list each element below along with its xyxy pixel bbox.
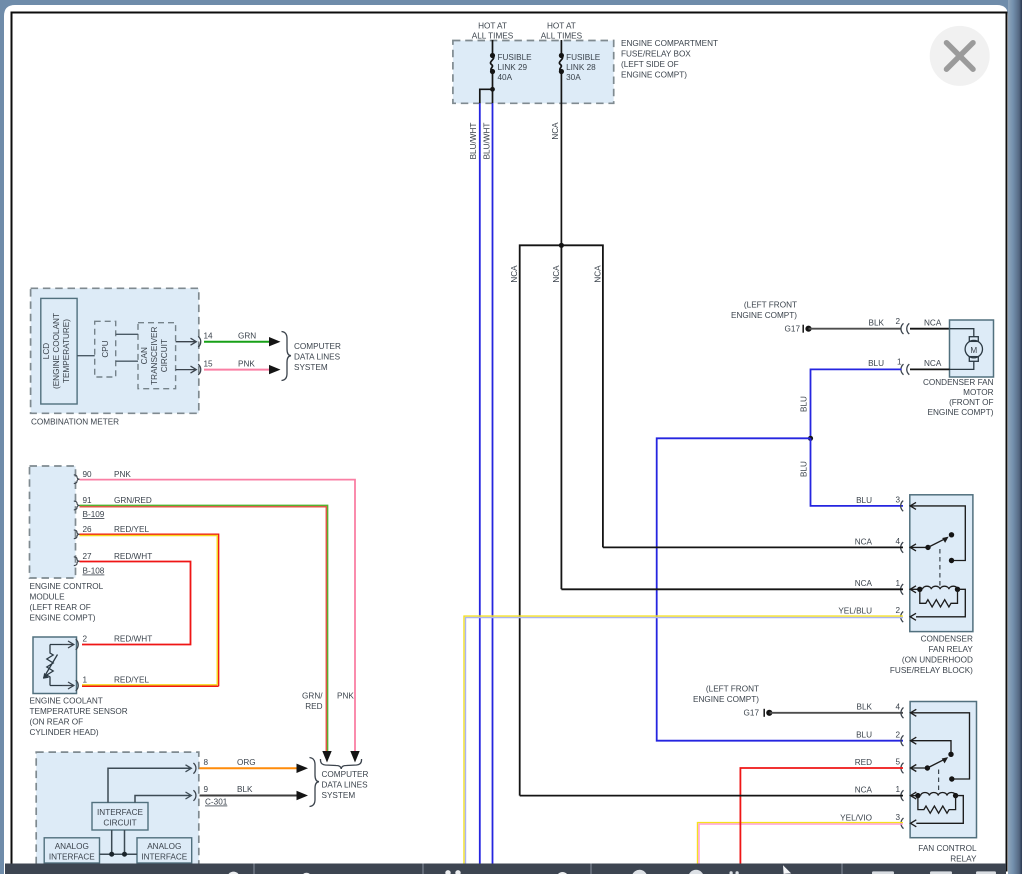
- branch wire from link 29: [480, 89, 493, 103]
- svg-text:40A: 40A: [498, 73, 513, 82]
- svg-text:8: 8: [204, 758, 209, 767]
- wire GRN pin 14: [204, 341, 272, 343]
- pin 15 connector: [176, 364, 201, 375]
- arrowhead BLK: [297, 791, 309, 800]
- brace computer data lines (bottom): [310, 758, 320, 807]
- arrowhead GRN: [269, 337, 281, 346]
- wire PNK pin 15: [204, 369, 272, 371]
- svg-text:NCA: NCA: [551, 122, 560, 140]
- svg-text:2: 2: [83, 635, 88, 644]
- interface block (dashed): [36, 752, 199, 873]
- wire NCA to relay pin 1: [561, 588, 903, 590]
- svg-text:3: 3: [896, 496, 901, 505]
- svg-text:ENGINE COMPT): ENGINE COMPT): [731, 311, 797, 320]
- svg-text:RED/YEL: RED/YEL: [114, 676, 149, 685]
- svg-text:CONDENSER: CONDENSER: [921, 635, 973, 644]
- wire NCA into motor: [910, 328, 950, 330]
- sensor pin 1 connector: [62, 680, 78, 691]
- svg-text:SYSTEM: SYSTEM: [322, 791, 356, 800]
- arrowhead PNK down: [350, 751, 359, 763]
- svg-text:(LEFT FRONT: (LEFT FRONT: [706, 685, 759, 694]
- analog interface box left: [44, 838, 99, 863]
- svg-text:ANALOG: ANALOG: [55, 842, 89, 851]
- wire NCA middle vertical: [560, 245, 562, 589]
- svg-text:PNK: PNK: [238, 359, 255, 368]
- svg-text:CONDENSER FAN: CONDENSER FAN: [923, 378, 994, 387]
- svg-text:2: 2: [896, 730, 901, 739]
- svg-text:TEMPERATURE): TEMPERATURE): [62, 319, 71, 383]
- wire PNK pin 90: [80, 480, 356, 754]
- svg-text:(ON REAR OF: (ON REAR OF: [30, 718, 84, 727]
- svg-text:NCA: NCA: [855, 786, 873, 795]
- ground G17 upper symbol: [802, 325, 804, 333]
- svg-text:RED: RED: [855, 758, 872, 767]
- node junction dot blue: [808, 436, 813, 441]
- svg-text:FUSIBLE: FUSIBLE: [566, 53, 601, 62]
- label (left front engine compt) G17 lower: [693, 685, 759, 718]
- svg-text:HOT AT: HOT AT: [547, 22, 576, 31]
- label engine control module: [30, 582, 104, 623]
- svg-text:RED: RED: [305, 702, 322, 711]
- svg-text:M: M: [970, 346, 977, 355]
- svg-text:LINK 28: LINK 28: [566, 63, 596, 72]
- condenser fan relay box: [910, 495, 973, 632]
- svg-text:90: 90: [83, 470, 93, 479]
- wire BLK to fan control relay pin 4: [770, 712, 904, 714]
- svg-text:COMPUTER: COMPUTER: [322, 770, 369, 779]
- svg-text:INTERFACE: INTERFACE: [141, 853, 187, 862]
- brace computer data lines (meter): [282, 332, 292, 381]
- underbrace to computer data lines: [320, 759, 361, 769]
- wire GRN/RED pin 91: [80, 505, 328, 752]
- svg-text:2: 2: [896, 606, 901, 615]
- svg-text:(FRONT OF: (FRONT OF: [949, 398, 993, 407]
- wires interface circuit to analog interfaces: [100, 830, 138, 854]
- svg-text:(ENGINE COOLANT: (ENGINE COOLANT: [52, 313, 61, 389]
- wire BLU junction branches: [811, 438, 904, 506]
- svg-text:NCA: NCA: [552, 265, 561, 283]
- fan relay switch arm: [925, 765, 930, 770]
- toolbar separators: [254, 864, 842, 874]
- relay switch arm: [925, 545, 930, 550]
- svg-text:RED/YEL: RED/YEL: [114, 525, 149, 534]
- svg-text:INTERFACE: INTERFACE: [97, 808, 143, 817]
- svg-text:ENGINE COMPT): ENGINE COMPT): [928, 408, 994, 417]
- combination meter box (dashed): [31, 288, 199, 413]
- svg-text:BLK: BLK: [237, 785, 253, 794]
- svg-text:4: 4: [896, 537, 901, 546]
- wire BLU/WHT left vertical: [479, 103, 481, 863]
- fusible link 28 30A: [559, 40, 562, 245]
- wire BLU/WHT right vertical: [492, 103, 494, 863]
- motor M symbol: [950, 329, 983, 370]
- svg-text:91: 91: [83, 496, 93, 505]
- svg-text:DATA LINES: DATA LINES: [294, 353, 341, 362]
- wire CPU to CAN upper: [116, 333, 138, 335]
- svg-text:LCD: LCD: [42, 343, 51, 359]
- wire RED/WHT pin 27: [80, 562, 191, 645]
- svg-text:NCA: NCA: [510, 265, 519, 283]
- wire RED to fan relay pin 5: [740, 768, 903, 864]
- wire CPU to CAN lower: [116, 360, 138, 362]
- wire NCA to fan relay pin 1: [520, 795, 903, 797]
- label fan control relay: [918, 844, 977, 864]
- wire interface circuit to pin 8: [108, 768, 190, 802]
- wire interface circuit to pin 9: [135, 796, 190, 803]
- svg-text:ENGINE CONTROL: ENGINE CONTROL: [30, 582, 104, 591]
- svg-text:(LEFT REAR OF: (LEFT REAR OF: [30, 603, 91, 612]
- svg-text:B-109: B-109: [83, 510, 105, 519]
- fusible link 29 40A: [490, 40, 493, 103]
- svg-text:CAN: CAN: [140, 347, 149, 364]
- svg-text:RED/WHT: RED/WHT: [114, 635, 152, 644]
- interface circuit box: [92, 803, 148, 831]
- fan relay coil: [915, 793, 920, 798]
- sensor pin 2 connector: [62, 639, 78, 650]
- svg-text:FUSE/RELAY BOX: FUSE/RELAY BOX: [621, 50, 691, 59]
- engine control module box (dashed): [30, 466, 76, 578]
- svg-text:RED/WHT: RED/WHT: [114, 552, 152, 561]
- svg-text:ORG: ORG: [237, 758, 256, 767]
- svg-text:4: 4: [896, 702, 901, 711]
- svg-text:COMPUTER: COMPUTER: [294, 342, 341, 351]
- svg-text:BLU/WHT: BLU/WHT: [469, 123, 478, 160]
- label condenser fan relay: [890, 635, 973, 676]
- svg-text:GRN: GRN: [238, 332, 256, 341]
- node junction dots analog bus: [109, 852, 114, 857]
- svg-text:RELAY: RELAY: [950, 855, 977, 864]
- svg-text:GRN/RED: GRN/RED: [114, 496, 152, 505]
- svg-text:CYLINDER HEAD): CYLINDER HEAD): [30, 728, 99, 737]
- engine compartment fuse/relay box (dashed): [453, 41, 614, 104]
- fan control relay box: [910, 702, 976, 838]
- svg-text:ALL TIMES: ALL TIMES: [541, 32, 583, 41]
- svg-text:2: 2: [896, 317, 901, 326]
- svg-text:9: 9: [204, 785, 209, 794]
- pin 26 bracket: [74, 530, 80, 539]
- svg-text:BLU/WHT: BLU/WHT: [483, 123, 492, 160]
- wire YEL/VIO: [698, 823, 904, 864]
- svg-text:GRN/: GRN/: [302, 692, 323, 701]
- bottom toolbar: [5, 864, 1006, 874]
- label condenser fan motor: [923, 378, 994, 417]
- thermistor symbol: [43, 645, 62, 686]
- svg-text:ENGINE COMPT): ENGINE COMPT): [621, 71, 687, 80]
- svg-text:COMBINATION METER: COMBINATION METER: [31, 418, 119, 427]
- svg-text:PNK: PNK: [337, 692, 354, 701]
- svg-text:NCA: NCA: [855, 579, 873, 588]
- arrowhead PNK: [269, 365, 281, 374]
- node junction dot: [559, 243, 564, 248]
- svg-text:PNK: PNK: [114, 470, 131, 479]
- CAN transceiver circuit block (dashed): [138, 323, 176, 389]
- svg-text:ENGINE COMPT): ENGINE COMPT): [693, 695, 759, 704]
- relay upper contact: [949, 558, 954, 563]
- svg-text:NCA: NCA: [924, 359, 942, 368]
- relay coil to pin 2: [916, 589, 965, 617]
- pin 90 bracket: [74, 475, 80, 484]
- svg-text:CIRCUIT: CIRCUIT: [160, 339, 169, 372]
- wire RED/YEL sensor pin 1: [82, 684, 217, 686]
- svg-text:BLU: BLU: [856, 496, 872, 505]
- svg-text:BLU: BLU: [800, 396, 809, 412]
- svg-text:CPU: CPU: [101, 340, 110, 357]
- svg-text:FUSE/RELAY BLOCK): FUSE/RELAY BLOCK): [890, 666, 973, 675]
- svg-text:ENGINE COOLANT: ENGINE COOLANT: [30, 697, 103, 706]
- LCD block: [41, 298, 77, 404]
- label (left front engine compt) G17 upper: [731, 301, 800, 334]
- svg-text:TRANSCEIVER: TRANSCEIVER: [150, 326, 159, 384]
- svg-text:MODULE: MODULE: [30, 593, 66, 602]
- fan relay coil to pin 3: [916, 796, 963, 824]
- label engine coolant temperature sensor: [30, 697, 128, 738]
- svg-text:B-108: B-108: [83, 567, 105, 576]
- wire BLU motor pin 1: [811, 369, 902, 438]
- svg-text:BLK: BLK: [857, 703, 873, 712]
- svg-text:BLU: BLU: [868, 359, 884, 368]
- svg-text:26: 26: [83, 525, 93, 534]
- engine coolant temperature sensor box: [33, 637, 77, 694]
- svg-text:NCA: NCA: [924, 319, 942, 328]
- svg-text:1: 1: [896, 579, 901, 588]
- svg-text:ENGINE COMPARTMENT: ENGINE COMPARTMENT: [621, 39, 718, 48]
- svg-text:BLU: BLU: [856, 731, 872, 740]
- condenser fan motor box: [950, 320, 994, 377]
- svg-text:NCA: NCA: [855, 537, 873, 546]
- svg-text:ANALOG: ANALOG: [147, 842, 181, 851]
- close button: [930, 26, 990, 86]
- svg-text:14: 14: [204, 332, 214, 341]
- relay coil: [917, 587, 922, 592]
- svg-text:G17: G17: [744, 709, 760, 718]
- wire NCA to relay pin 4: [603, 546, 903, 548]
- arrowhead GRN/RED down: [322, 751, 331, 763]
- svg-text:27: 27: [83, 552, 93, 561]
- CPU block (dashed): [95, 321, 116, 377]
- svg-text:TEMPERATURE SENSOR: TEMPERATURE SENSOR: [30, 707, 128, 716]
- svg-text:SYSTEM: SYSTEM: [294, 363, 328, 372]
- svg-text:1: 1: [896, 785, 901, 794]
- svg-text:INTERFACE: INTERFACE: [49, 853, 95, 862]
- svg-text:1: 1: [897, 358, 902, 367]
- junction bar under fusible link 28: [520, 245, 603, 795]
- toolbar icon tops (clipped): [227, 865, 996, 874]
- svg-text:DATA LINES: DATA LINES: [322, 781, 369, 790]
- relay plunger dashed: [939, 549, 941, 587]
- svg-text:(ON UNDERHOOD: (ON UNDERHOOD: [902, 656, 973, 665]
- svg-text:1: 1: [83, 676, 88, 685]
- analog interface box right: [137, 838, 192, 863]
- svg-text:YEL/BLU: YEL/BLU: [838, 607, 872, 616]
- arrowhead ORG: [297, 764, 309, 773]
- relay resistor parallel: [920, 589, 958, 607]
- pin 14 connector: [176, 336, 201, 347]
- svg-text:NCA: NCA: [593, 265, 602, 283]
- svg-text:C-301: C-301: [205, 798, 228, 807]
- svg-text:15: 15: [204, 359, 214, 368]
- label engine compartment fuse/relay box: [621, 39, 718, 80]
- ground G17 lower symbol: [763, 709, 765, 717]
- wire LCD to CPU: [77, 355, 95, 357]
- label computer data lines system: [294, 342, 341, 372]
- svg-text:CIRCUIT: CIRCUIT: [103, 819, 136, 828]
- label computer data lines system: [322, 770, 369, 800]
- svg-text:5: 5: [896, 758, 901, 767]
- svg-text:ALL TIMES: ALL TIMES: [472, 32, 514, 41]
- wire RED/YEL pin 26: [80, 534, 219, 686]
- svg-text:MOTOR: MOTOR: [963, 388, 993, 397]
- pin 27 bracket: [74, 557, 80, 566]
- wire BLK to condenser fan motor pin 2: [809, 328, 902, 330]
- pin 1 connector arcs: [901, 364, 909, 375]
- svg-text:YEL/VIO: YEL/VIO: [840, 813, 872, 822]
- pin 91 bracket: [74, 501, 80, 510]
- svg-text:HOT AT: HOT AT: [478, 22, 507, 31]
- svg-text:3: 3: [896, 813, 901, 822]
- svg-text:ENGINE COMPT): ENGINE COMPT): [30, 614, 96, 623]
- svg-text:FUSIBLE: FUSIBLE: [498, 53, 533, 62]
- pin 2 connector arcs: [901, 323, 909, 334]
- svg-text:FAN RELAY: FAN RELAY: [928, 645, 973, 654]
- wire YEL/BLU: [464, 616, 903, 863]
- svg-text:(LEFT SIDE OF: (LEFT SIDE OF: [621, 60, 679, 69]
- svg-text:BLU: BLU: [800, 461, 809, 477]
- svg-text:FAN CONTROL: FAN CONTROL: [918, 844, 977, 853]
- svg-text:G17: G17: [785, 325, 801, 334]
- fan relay resistor parallel: [918, 796, 956, 814]
- svg-text:LINK 29: LINK 29: [498, 63, 528, 72]
- fan relay plunger dashed: [938, 770, 940, 794]
- svg-text:30A: 30A: [566, 73, 581, 82]
- svg-text:(LEFT FRONT: (LEFT FRONT: [744, 301, 797, 310]
- svg-text:BLK: BLK: [869, 319, 885, 328]
